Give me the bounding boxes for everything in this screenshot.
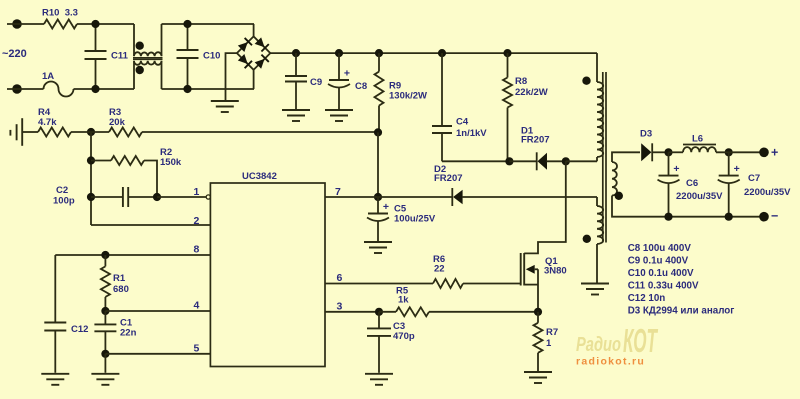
capacitor C10 — [187, 24, 189, 50]
transformer secondary polarity dot — [615, 192, 623, 200]
op-amp U1 UC3842 box — [210, 183, 325, 367]
wire to pin 1 — [157, 196, 207, 198]
svg-text:+: + — [771, 146, 778, 160]
wire bridge plus to HV rail — [270, 52, 597, 54]
svg-text:C8: C8 — [355, 81, 367, 92]
ground below bridge — [211, 100, 239, 102]
capacitor C3 — [378, 312, 380, 329]
wire choke to bridge top — [162, 23, 255, 25]
bridge diode bottom-left — [237, 54, 252, 69]
bridge diode bottom-right — [254, 55, 269, 70]
capacitor C7 electrolytic — [728, 152, 730, 175]
node junction R2 left — [87, 156, 95, 164]
transformer primary polarity dot — [582, 77, 590, 85]
node junction L6 right — [725, 148, 733, 156]
ground below C1 — [91, 373, 119, 375]
node output terminal plus — [759, 148, 769, 158]
svg-text:D3 КД2994 или аналог: D3 КД2994 или аналог — [628, 306, 735, 317]
node junction C2 left — [87, 193, 95, 201]
wire pin 5 — [105, 353, 210, 355]
choke polarity dot top — [136, 42, 144, 50]
svg-text:1k: 1k — [398, 295, 409, 306]
svg-text:КОТ: КОТ — [623, 322, 658, 359]
wire pin 7 — [325, 196, 378, 198]
svg-text:3: 3 — [337, 301, 343, 313]
ground below C8 — [325, 109, 353, 111]
inductor L6 — [683, 147, 716, 152]
node input terminal top (~220 live) — [12, 19, 22, 29]
bridge rectifier diamond — [237, 36, 270, 69]
transformer aux polarity dot — [583, 235, 591, 243]
wire junction to primary bottom — [566, 160, 597, 162]
node junction C10 top — [183, 20, 191, 28]
resistor R9 — [378, 53, 380, 72]
svg-text:4.7k: 4.7k — [38, 117, 57, 128]
svg-text:R7: R7 — [546, 327, 558, 338]
svg-text:R1: R1 — [113, 273, 126, 284]
svg-text:6: 6 — [337, 272, 343, 284]
svg-text:R8: R8 — [515, 76, 527, 87]
svg-text:D3: D3 — [640, 129, 652, 140]
wire pin5 node to ground — [104, 354, 106, 373]
svg-text:1: 1 — [194, 186, 200, 198]
wire pin 3 — [325, 311, 379, 313]
node junction snubber — [505, 157, 513, 165]
wire pin 8 (Vref) — [55, 254, 210, 256]
Q1 substrate arrow — [526, 265, 535, 274]
svg-text:C7: C7 — [748, 173, 760, 184]
node junction C4 — [438, 49, 446, 57]
node junction C9 — [292, 49, 300, 57]
wire divider vertical — [90, 132, 92, 225]
wire bridge minus to ground — [226, 53, 237, 100]
Q1 drain lead — [524, 161, 566, 253]
capacitor C9 — [295, 53, 297, 76]
node junction C8 — [335, 49, 343, 57]
wire C4 to R8 bottom (snubber) — [442, 160, 509, 162]
pin 1 inverting marker circle — [206, 195, 210, 199]
node junction R9 — [375, 49, 383, 57]
svg-text:C10 0.1u 400V: C10 0.1u 400V — [628, 268, 694, 279]
wire D3 to L6 — [669, 151, 684, 153]
capacitor C6 electrolytic — [668, 152, 670, 175]
svg-text:100p: 100p — [53, 196, 75, 207]
wire choke to bridge bottom — [162, 88, 255, 90]
svg-text:8: 8 — [194, 244, 200, 256]
node junction pin7/Vcc — [374, 193, 382, 201]
capacitor C1 — [104, 311, 106, 324]
node junction C3/R5 — [375, 308, 383, 316]
node junction D1 anode / drain / primary — [562, 157, 570, 165]
node input terminal bottom — [12, 84, 22, 94]
ground below C12 — [41, 373, 69, 375]
resistor R8 — [507, 53, 509, 77]
bridge diode top-left — [237, 38, 252, 53]
fuse 1A — [44, 82, 74, 97]
node junction R9 bottom / feedback — [374, 128, 382, 136]
svg-text:22k/2W: 22k/2W — [515, 87, 548, 98]
node junction R1 top — [101, 251, 109, 259]
wire fuse to C11 node — [74, 88, 135, 90]
node junction R8 — [503, 49, 511, 57]
ground below C5 — [364, 241, 392, 243]
svg-text:UC3842: UC3842 — [242, 171, 277, 182]
common-mode choke L (input filter) — [133, 24, 135, 56]
svg-text:C9 0.1u 400V: C9 0.1u 400V — [628, 256, 689, 267]
svg-text:radiokot.ru: radiokot.ru — [576, 356, 645, 368]
svg-text:470p: 470p — [393, 331, 415, 342]
svg-text:100u/25V: 100u/25V — [394, 214, 436, 225]
svg-text:Радио: Радио — [576, 334, 621, 356]
svg-text:C4: C4 — [456, 117, 469, 128]
transformer secondary winding — [612, 152, 640, 162]
bridge diode top-right — [254, 37, 269, 52]
resistor R2 — [91, 160, 111, 162]
resistor R7 — [537, 312, 539, 323]
svg-text:22n: 22n — [120, 328, 137, 339]
wire output bottom rail — [669, 216, 765, 218]
transistor Q1 3N80 MOSFET — [520, 253, 522, 286]
node junction C10 bottom — [183, 85, 191, 93]
svg-text:C9: C9 — [310, 77, 322, 88]
diode D3 — [641, 143, 651, 161]
svg-text:C12 10n: C12 10n — [628, 293, 666, 304]
capacitor C8 electrolytic — [338, 53, 340, 80]
resistor R10 — [44, 20, 77, 29]
svg-text:−: − — [771, 209, 778, 223]
resistor R3 — [71, 131, 109, 133]
svg-text:3N80: 3N80 — [544, 266, 567, 277]
capacitor C12 — [54, 255, 56, 323]
node junction R2/C2 right — [153, 193, 161, 201]
node junction RT/CT — [101, 307, 109, 315]
svg-text:L6: L6 — [692, 134, 703, 145]
svg-text:4: 4 — [194, 300, 200, 312]
wire pin 6 to R6 — [325, 283, 433, 285]
transformer aux winding — [596, 197, 598, 206]
ground below C9 — [282, 109, 310, 111]
svg-text:FR207: FR207 — [521, 135, 550, 146]
wire R6 to gate — [463, 283, 521, 285]
svg-text:150k: 150k — [160, 157, 182, 168]
svg-text:5: 5 — [194, 343, 200, 355]
transformer primary winding — [596, 53, 598, 82]
svg-text:2200u/35V: 2200u/35V — [744, 187, 791, 198]
ground symbol left (feedback divider) — [21, 118, 23, 146]
svg-text:C12: C12 — [71, 324, 88, 335]
node junction C6 top — [664, 148, 672, 156]
svg-text:C11: C11 — [111, 51, 129, 62]
wire top AC from terminal to R10 — [7, 23, 44, 25]
node junction C6 bottom — [664, 213, 672, 221]
node output terminal minus — [759, 212, 769, 222]
wire L6 to output plus — [716, 151, 764, 153]
wire pin 4 — [105, 310, 210, 312]
ground below aux winding — [581, 283, 609, 285]
svg-text:C8 100u 400V: C8 100u 400V — [628, 243, 692, 254]
resistor R5 — [379, 311, 396, 313]
capacitor C5 electrolytic — [377, 197, 379, 214]
node junction Q1 source / R7 — [534, 308, 542, 316]
capacitor C4 — [441, 53, 443, 126]
wire ground to R4 — [22, 131, 38, 133]
wire R3 to Vcc node (long feedback) — [142, 131, 378, 133]
svg-text:2200u/35V: 2200u/35V — [676, 191, 723, 202]
svg-text:~220: ~220 — [2, 48, 27, 60]
wire bottom AC from terminal to fuse — [7, 88, 44, 90]
svg-text:22: 22 — [434, 264, 445, 275]
wire R5 to source node — [429, 311, 538, 313]
svg-text:R10 3.3: R10 3.3 — [42, 8, 78, 19]
svg-text:20k: 20k — [109, 117, 126, 128]
parts list annotation — [628, 243, 735, 317]
svg-text:+: + — [734, 163, 740, 175]
node junction C7 bottom — [725, 213, 733, 221]
svg-text:+: + — [383, 201, 389, 213]
resistor R4 — [38, 128, 71, 137]
wire R9 bottom to pin7 node — [377, 132, 379, 197]
node junction C11 top — [91, 20, 99, 28]
svg-text:C11 0.33u 400V: C11 0.33u 400V — [628, 281, 699, 292]
svg-text:C6: C6 — [686, 178, 698, 189]
svg-text:130k/2W: 130k/2W — [389, 91, 427, 102]
resistor R1 — [104, 255, 106, 266]
svg-text:1A: 1A — [42, 71, 54, 82]
resistor R6 — [433, 279, 463, 288]
diode D2 FR207 — [378, 196, 452, 198]
svg-text:1n/1kV: 1n/1kV — [456, 128, 487, 139]
node junction C11 bottom — [91, 85, 99, 93]
wire R10 to C11 node — [77, 23, 134, 25]
node junction pin5/gnd — [101, 350, 109, 358]
transformer core — [602, 72, 604, 243]
svg-text:C2: C2 — [56, 185, 68, 196]
ground below C3 — [365, 373, 393, 375]
choke polarity dot bottom — [136, 66, 144, 74]
diode D1 FR207 — [509, 160, 537, 162]
capacitor C2 — [91, 196, 123, 198]
wire pin 2 — [91, 224, 210, 226]
node junction R4/R3 — [87, 128, 95, 136]
svg-text:+: + — [344, 68, 350, 80]
svg-text:FR207: FR207 — [434, 173, 463, 184]
Q1 source lead — [524, 284, 538, 286]
capacitor C11 — [95, 24, 97, 51]
svg-text:C10: C10 — [203, 51, 220, 62]
svg-text:2: 2 — [194, 215, 200, 227]
svg-text:+: + — [673, 163, 679, 175]
ground below R7 — [524, 371, 552, 373]
svg-text:680: 680 — [113, 284, 129, 295]
svg-text:1: 1 — [546, 338, 552, 349]
